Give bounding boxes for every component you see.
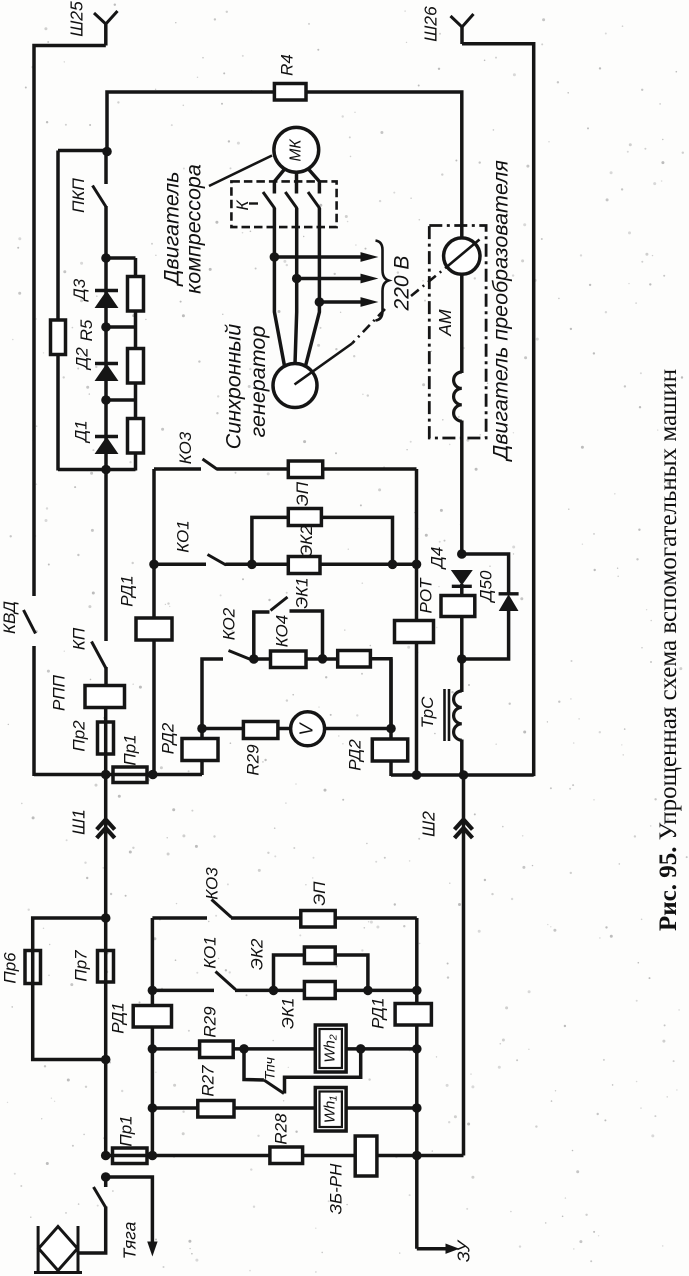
node junction right column ЭК1 — [412, 986, 422, 996]
resistor parallel to Д2 — [128, 349, 144, 384]
node junction bottom bus РОТ column — [412, 770, 422, 780]
wire phase3 into generator — [306, 302, 320, 366]
wire rung between Д2 and Д1 — [106, 398, 136, 402]
wire КО2 line to resistor — [250, 657, 271, 661]
svg-text:ЗБ-РН: ЗБ-РН — [326, 1163, 345, 1214]
fuse Пр7 — [98, 951, 114, 983]
wire КО4 bypass right — [290, 611, 323, 659]
node junction ЭК2 left — [247, 560, 257, 570]
connector plug bars — [37, 1226, 40, 1273]
wire АМ circle to coil — [460, 274, 464, 373]
diode Д1 — [96, 438, 118, 454]
wire К pole1 lower — [273, 208, 277, 258]
svg-text:R27: R27 — [198, 1065, 217, 1097]
wire R5 vertical — [56, 151, 60, 471]
wire РД2 right column — [389, 659, 393, 776]
svg-text:R5: R5 — [77, 319, 96, 341]
connector plug diamond — [39, 1227, 78, 1271]
node junction Д4 top / Д50 branch — [457, 549, 467, 559]
resistor R27 — [198, 1101, 234, 1118]
wire Ш2 lower vertical — [462, 775, 466, 1156]
wire КО4 bypass bracket — [254, 612, 270, 659]
transformer ТрС winding — [454, 691, 462, 740]
wire R28 line — [152, 1154, 463, 1158]
svg-text:Д1: Д1 — [71, 420, 90, 443]
relay ЗБ-РН box — [355, 1136, 377, 1176]
wire ТрС to bottom bus — [460, 740, 464, 777]
switch ПКП blade — [93, 186, 106, 207]
switch К pole1 blade — [263, 192, 275, 209]
resistor ЭК1 lower — [304, 982, 335, 999]
switch К pole3 blade — [308, 192, 320, 209]
node junction Тпч left — [239, 1044, 249, 1054]
svg-text:Двигатель преобразователя: Двигатель преобразователя — [489, 160, 513, 462]
wire leader 220V to АМ motor solid — [446, 240, 480, 268]
svg-text:КО1: КО1 — [200, 936, 219, 969]
node junction voltmeter line left — [197, 724, 207, 734]
resistor R28 — [270, 1147, 303, 1164]
node junction rung mid1 — [101, 322, 111, 332]
wire КО1/ЭК1 line right part — [226, 563, 417, 567]
relay РД1 mid — [133, 1006, 171, 1028]
node junction Пр1 lower line — [101, 1151, 111, 1161]
generator circle (синхронный генератор) — [273, 364, 317, 408]
wire rung between Д3 and Д2 — [106, 325, 136, 329]
node Ш1 chevron terminal — [97, 820, 115, 830]
relay РД2 right — [372, 739, 407, 761]
inductor АМ smoothing coil — [454, 372, 462, 421]
diode Д4 — [452, 571, 472, 585]
node junction ЭК2 lower right — [363, 986, 373, 996]
node junction КО4 right — [318, 654, 328, 664]
svg-text:Пр2: Пр2 — [69, 720, 88, 752]
wire КО3 line left part — [154, 467, 201, 471]
resistor ЭП lower — [301, 911, 335, 928]
node Ш25 terminal antenna — [94, 11, 118, 24]
node junction КО4 left — [249, 654, 259, 664]
node junction phase3 arrow tap — [315, 297, 325, 307]
wire Д50 branch — [462, 554, 509, 595]
switch КП blade — [92, 642, 106, 669]
wire main drop above ПКП — [104, 151, 108, 184]
resistor parallel to Д1 — [128, 419, 144, 454]
switch КВД blade — [24, 610, 36, 634]
wire diode column Д3-Д2-Д1 — [104, 258, 108, 471]
wire R4 line from main drop to АМ drop — [107, 92, 462, 238]
meter Wh2 box — [315, 1025, 346, 1072]
node junction rung top — [101, 253, 111, 263]
fuse Пр1 lower — [113, 1148, 148, 1164]
resistor ЭП upper — [288, 461, 322, 478]
wire arrow phase1 — [274, 255, 363, 259]
wire between shunt resistors — [305, 657, 339, 661]
node junction ЭК2 lower left — [269, 986, 279, 996]
svg-text:КО2: КО2 — [219, 607, 238, 640]
node junction phase2 arrow tap — [292, 274, 302, 284]
transformer ТрС core — [443, 689, 446, 741]
wire КО1 lower line right — [235, 989, 417, 993]
wire Пр1 lower line — [106, 1154, 153, 1158]
wire Ш1 lower vertical — [104, 775, 108, 1157]
svg-text:РД1: РД1 — [117, 575, 136, 606]
relay РОТ — [395, 621, 434, 643]
svg-text:КП: КП — [69, 627, 88, 650]
wire resistor column parallel to diodes — [134, 258, 138, 471]
svg-text:К: К — [233, 200, 252, 211]
wire leader label to МК — [209, 156, 272, 187]
resistor КО4 shunt 1 — [271, 651, 307, 668]
wire КО3 lower column — [151, 918, 155, 1156]
switch КО1 blade — [208, 555, 227, 566]
wire ЭК2 lower loop — [274, 955, 368, 990]
wire МК terminal left — [274, 168, 285, 194]
svg-text:R28: R28 — [271, 1113, 290, 1145]
node junction Ш1 bus / РД1 column — [148, 770, 158, 780]
svg-text:Ш25: Ш25 — [67, 1, 87, 37]
svg-text:Пр1: Пр1 — [116, 1115, 135, 1146]
wire arrow phase2 — [297, 277, 363, 281]
wire leader 220V to generator dash — [352, 309, 385, 344]
wire КО1/ЭК1 line left part — [154, 563, 206, 567]
node junction Ш1 bus / Пр2 — [101, 770, 111, 780]
svg-text:РД1: РД1 — [108, 1002, 127, 1033]
svg-text:R29: R29 — [200, 1006, 219, 1038]
switch КО4 blade — [271, 597, 288, 611]
relay РД1 left — [136, 618, 172, 640]
resistor ЭК2 upper — [288, 509, 321, 526]
wire right heater column — [415, 918, 419, 1249]
wire Тпч switch right — [285, 1049, 361, 1094]
svg-text:РПП: РПП — [49, 674, 68, 711]
wire switch to plug — [79, 1207, 106, 1254]
node junction phase1 arrow tap — [270, 252, 280, 262]
svg-text:220 В: 220 В — [390, 256, 413, 312]
fuse Пр1 upper — [113, 767, 147, 783]
svg-text:R29: R29 — [243, 744, 262, 776]
wire МК terminal right — [308, 168, 320, 194]
resistor R4 — [274, 84, 306, 101]
resistor ЭК2 lower — [304, 947, 335, 964]
resistor R5 — [51, 320, 66, 355]
node junction voltmeter line right — [386, 724, 396, 734]
svg-text:Двигатель: Двигатель — [160, 171, 184, 286]
wire to disconnect switch — [104, 1177, 108, 1187]
switch КО3 lower blade — [212, 900, 232, 918]
switch К pole2 blade — [285, 192, 297, 209]
wire R29 lower line — [152, 1047, 416, 1051]
svg-text:ПКП: ПКП — [69, 177, 88, 212]
svg-text:ЭК2: ЭК2 — [297, 525, 316, 557]
diode Д2 — [96, 365, 118, 381]
svg-text:Пр6: Пр6 — [0, 952, 19, 984]
wire РПП to Ш1 bus — [104, 707, 108, 776]
node junction ЭК2 right — [388, 560, 398, 570]
svg-text:МК: МК — [287, 139, 304, 162]
resistor КО4 shunt 2 — [338, 651, 371, 668]
svg-text:Ш26: Ш26 — [421, 6, 441, 42]
svg-text:ЭК1: ЭК1 — [292, 577, 311, 608]
relay РД1 right — [395, 1004, 431, 1026]
node junction rung bottom — [101, 465, 111, 475]
wire Тпч switch left — [244, 1049, 264, 1080]
svg-text:R4: R4 — [277, 54, 296, 76]
wire Ш26 to right drop — [462, 44, 534, 776]
svg-text:ЭП: ЭП — [293, 481, 312, 506]
svg-text:ЭК2: ЭК2 — [247, 938, 266, 970]
node junction rung mid2 — [101, 395, 111, 405]
node Ш2 chevron terminal — [455, 820, 473, 830]
wire voltmeter line — [202, 727, 391, 731]
motor АМ circle — [444, 238, 480, 274]
svg-text:ТрС: ТрС — [418, 696, 437, 728]
svg-text:Д2: Д2 — [72, 347, 91, 371]
switch Тпч blade — [264, 1080, 284, 1094]
svg-text:Ш2: Ш2 — [419, 811, 439, 837]
switch КО3 blade — [203, 459, 218, 470]
node junction КО1 lower tap — [148, 986, 158, 996]
wire КО2 line left corner — [202, 659, 223, 729]
wire К pole3 lower — [318, 208, 322, 303]
node junction КО1 line tap — [149, 560, 159, 570]
wire ЭК2 bypass loop — [252, 517, 393, 564]
wire rung top of diode network — [106, 256, 136, 260]
node junction R27 lower tap — [148, 1103, 158, 1113]
svg-text:Пр7: Пр7 — [71, 950, 90, 982]
svg-text:Wh₂: Wh₂ — [322, 1034, 339, 1063]
wire ЗУ arrow — [417, 1247, 446, 1251]
node Ш26 terminal antenna — [451, 14, 474, 27]
svg-text:ЗУ: ЗУ — [454, 1239, 474, 1262]
wire rung bottom of diode network — [58, 468, 136, 472]
svg-text:генератор: генератор — [246, 326, 270, 438]
wire arrow phase3 — [319, 300, 363, 304]
node junction Пр6 bottom — [101, 1055, 111, 1065]
wire shunt2 to right drop — [370, 659, 391, 730]
resistor R29 upper — [243, 722, 278, 739]
node junction Тпч right — [356, 1044, 366, 1054]
wire Д4 to box — [460, 584, 464, 596]
node junction ЭП column — [412, 560, 422, 570]
fuse Пр6 — [25, 951, 41, 984]
node junction Wh1 line right — [412, 1103, 422, 1113]
wire Д50 branch return — [462, 610, 509, 659]
wire bottom return bus — [391, 773, 534, 776]
wire Ш25 top bus to left drop — [34, 46, 106, 597]
wire coil to Д4 node — [460, 421, 464, 555]
wire box to ТрС — [460, 616, 464, 692]
svg-text:ЭП: ЭП — [310, 881, 329, 906]
svg-text:КО4: КО4 — [272, 615, 291, 648]
svg-text:Тяга: Тяга — [120, 1221, 140, 1259]
svg-text:Тпч: Тпч — [262, 1057, 278, 1080]
relay РПП — [85, 686, 125, 708]
svg-text:Wh₁: Wh₁ — [322, 1096, 339, 1124]
node junction Пр6 top — [101, 913, 111, 923]
svg-text:Рис. 95. Упрощенная схема вспо: Рис. 95. Упрощенная схема вспомогательны… — [655, 369, 682, 931]
wire leader 220V to generator solid — [295, 344, 353, 385]
wire РД1 left column — [152, 469, 156, 776]
node junction R29 lower tap — [148, 1044, 158, 1054]
svg-text:РД2: РД2 — [158, 722, 177, 754]
svg-text:РОТ: РОТ — [416, 577, 435, 614]
svg-text:Д4: Д4 — [427, 547, 446, 570]
node junction Д50 return — [457, 654, 467, 664]
svg-text:Д50: Д50 — [476, 570, 495, 603]
wire КО3 lower line left — [152, 916, 207, 920]
wire Ш1 bus — [34, 773, 202, 776]
contactor К dashed box — [231, 181, 336, 227]
svg-text:компрессора: компрессора — [182, 164, 206, 294]
switch КО1 lower blade — [216, 972, 236, 990]
svg-text:Д3: Д3 — [70, 278, 89, 302]
svg-text:РД2: РД2 — [345, 739, 364, 771]
meter Wh1 box — [315, 1088, 346, 1132]
diode Д50 — [499, 592, 519, 595]
node junction R28 line left — [148, 1151, 158, 1161]
wire phase2 into generator — [295, 279, 297, 365]
switch disconnector blade — [94, 1187, 106, 1208]
wire Wh1 line — [152, 1106, 416, 1110]
wire ЭП right column — [415, 469, 419, 776]
wire phase1 into generator — [274, 257, 284, 366]
resistor R29 lower — [200, 1041, 234, 1058]
fuse Пр2 — [98, 722, 114, 754]
svg-text:АМ: АМ — [435, 309, 455, 337]
wire КО1 lower line left — [152, 989, 214, 993]
wire КО3 line right part — [217, 467, 417, 471]
wire R5 branch rung — [58, 149, 107, 153]
svg-text:РД1: РД1 — [368, 998, 387, 1029]
svg-text:ЭК1: ЭК1 — [278, 998, 297, 1029]
svg-text:Пр1: Пр1 — [120, 734, 139, 765]
svg-text:КО3: КО3 — [176, 431, 195, 464]
resistor ЭК1 upper — [288, 557, 320, 574]
switch КО2 blade — [229, 651, 251, 660]
diode Д3 — [96, 292, 118, 308]
wire main drop below ПКП — [104, 206, 108, 259]
relay box below Д4 — [441, 596, 475, 617]
node junction R28/ЗУ column — [412, 1151, 422, 1161]
wire main drop to КП — [104, 469, 108, 641]
motor МК circle — [274, 127, 319, 172]
svg-text:Ш1: Ш1 — [69, 809, 89, 835]
wire К pole2 lower — [295, 208, 299, 280]
svg-text:V: V — [296, 722, 316, 736]
resistor parallel to Д3 — [128, 277, 144, 312]
wire leader 220V to АМ motor dash — [411, 268, 446, 297]
wire РД2 left column — [200, 728, 204, 775]
node junction R4-line/R5 rung — [102, 147, 112, 157]
node junction Тяга branch — [101, 1172, 111, 1182]
wire Пр6 bypass — [33, 918, 106, 1060]
wire Тяга branch — [106, 1177, 153, 1243]
wire КО3 lower line right — [231, 916, 417, 920]
svg-text:Синхронный: Синхронный — [222, 324, 246, 449]
relay РД2 left — [182, 739, 218, 761]
svg-text:КО3: КО3 — [202, 867, 221, 900]
brace for 220V bus — [376, 241, 389, 321]
svg-text:КВД: КВД — [0, 601, 19, 634]
wire КВД lower to Ш1 bus — [32, 646, 36, 776]
svg-text:КО1: КО1 — [173, 520, 192, 553]
box АМ dash-dot outline — [429, 226, 486, 439]
voltmeter V circle — [291, 712, 325, 746]
node junction bottom bus Ш2 — [459, 770, 469, 780]
wire МК terminal mid — [295, 172, 299, 194]
wire КП to РПП — [104, 667, 108, 687]
node junction R29 line right — [412, 1044, 422, 1054]
